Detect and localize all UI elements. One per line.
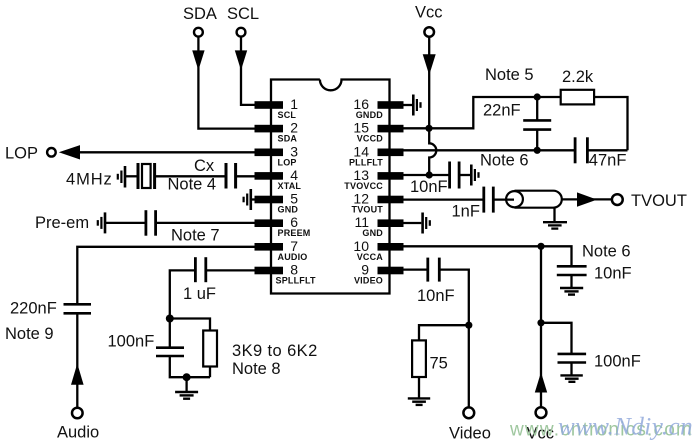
svg-text:1nF: 1nF <box>452 203 480 221</box>
arrow Vcc down <box>423 54 436 75</box>
capacitor 10nF pin13 <box>450 162 460 189</box>
pin 3 stub <box>255 149 284 157</box>
wire 10nF to video node <box>439 270 469 326</box>
pin 11 stub <box>378 219 404 227</box>
svg-text:LOP: LOP <box>5 144 38 162</box>
terminal LOP <box>47 148 56 157</box>
wire node to resistor <box>170 319 210 331</box>
wire 2.2k to right corner <box>594 97 627 150</box>
capacitor 1nF <box>484 187 494 213</box>
arrow Vcc2 up <box>535 372 547 392</box>
wire pin 15 to top rail <box>403 97 561 128</box>
arrow LOP left <box>59 145 80 159</box>
arrow TVOUT right <box>577 192 597 206</box>
pin 5 stub <box>255 196 284 204</box>
wire SDA to pin 2 <box>198 37 256 129</box>
svg-text:100nF: 100nF <box>594 353 641 371</box>
svg-text:Video: Video <box>449 425 491 443</box>
wire 1nF to cable <box>493 198 514 200</box>
wire pin 16 to ground <box>403 104 412 106</box>
pin 6 stub <box>255 219 284 227</box>
svg-text:PREEM: PREEM <box>278 228 311 238</box>
svg-text:Note 6: Note 6 <box>480 152 529 170</box>
terminal SCL <box>237 28 246 37</box>
pin 15 stub <box>378 125 404 133</box>
wire pin 14 rail <box>403 149 575 151</box>
wire node to 75 resistor <box>419 325 469 340</box>
wire 1uF to node <box>170 270 196 318</box>
capacitor 1uF <box>195 257 205 282</box>
wire pin 7 to 220nF <box>77 247 256 304</box>
svg-text:75: 75 <box>430 355 448 373</box>
svg-text:VCCD: VCCD <box>357 134 384 144</box>
wire pin 9 to 10nF <box>403 268 428 270</box>
svg-text:Note 9: Note 9 <box>5 325 54 343</box>
svg-text:Audio: Audio <box>57 424 99 442</box>
svg-text:www.Ndiy.cn: www.Ndiy.cn <box>558 414 693 441</box>
svg-text:GNDD: GNDD <box>356 110 384 120</box>
svg-text:VIDEO: VIDEO <box>354 276 383 286</box>
svg-text:Note 7: Note 7 <box>171 227 220 245</box>
wire resistor to rail <box>209 367 211 378</box>
pin 14 stub <box>378 149 404 157</box>
svg-text:AUDIO: AUDIO <box>278 252 308 262</box>
capacitor 100nF left <box>156 348 184 356</box>
ground crystal <box>118 166 137 188</box>
pin 2 stub <box>255 125 284 133</box>
wire Note7 cap to pin 6 <box>156 222 256 224</box>
wire cable to terminal <box>562 198 612 200</box>
wire pin 8 to 1uF <box>206 269 256 271</box>
wire 47nF to corner <box>587 149 627 151</box>
junction dot pin13 Vcc <box>426 171 433 178</box>
svg-text:SDA: SDA <box>278 134 298 144</box>
terminal Vcc bottom <box>536 407 547 418</box>
crystal X1 4MHz <box>138 163 155 189</box>
terminal TVOUT <box>612 194 623 205</box>
resistor 75 <box>412 340 426 377</box>
terminal Vcc top <box>424 27 434 37</box>
svg-text:4MHz: 4MHz <box>66 171 113 189</box>
arrow SDA down <box>192 50 204 70</box>
pin 9 stub <box>378 267 404 275</box>
ground pin 11 <box>423 213 430 234</box>
svg-text:1 uF: 1 uF <box>183 285 216 303</box>
junction dot top rail <box>534 93 541 100</box>
resistor 3K9 to 6K2 <box>203 331 217 367</box>
svg-text:Note 8: Note 8 <box>232 360 281 378</box>
svg-text:GND: GND <box>362 228 383 238</box>
pin 4 stub <box>255 172 284 180</box>
wire Cx to pin 4 <box>236 175 256 177</box>
svg-text:VCCA: VCCA <box>357 252 384 262</box>
svg-text:SDA: SDA <box>183 5 217 23</box>
ground pin 16 <box>413 95 420 116</box>
capacitor 10nF pin9 <box>428 258 440 282</box>
pin 12 stub <box>378 196 404 204</box>
svg-text:220nF: 220nF <box>10 300 57 318</box>
cable left end ellipse <box>506 191 523 207</box>
svg-text:PLLFLT: PLLFLT <box>349 157 383 167</box>
pin 1 stub <box>255 101 284 109</box>
wire SCL to pin 1 <box>241 37 256 105</box>
wire pin 11 to ground <box>403 222 421 224</box>
svg-text:100nF: 100nF <box>108 333 155 351</box>
resistor 2.2k <box>561 90 594 105</box>
pin 10 stub <box>378 243 404 251</box>
ground 75 <box>408 398 430 405</box>
capacitor 220nF <box>64 304 92 313</box>
svg-text:Vcc: Vcc <box>415 4 443 22</box>
svg-text:TVOUT: TVOUT <box>631 192 687 210</box>
wire pin 10 to Note6 cap <box>403 246 572 266</box>
svg-text:SCL: SCL <box>278 110 297 120</box>
wire Vcc vertical with hop <box>429 37 436 175</box>
svg-text:10nF: 10nF <box>417 287 455 305</box>
junction node SPLL <box>166 315 174 323</box>
svg-text:SCL: SCL <box>227 5 259 23</box>
capacitor 47nF <box>575 137 587 163</box>
svg-text:10nF: 10nF <box>410 178 448 196</box>
ground 10nF right <box>560 275 583 295</box>
capacitor 22nF <box>523 97 551 150</box>
pin 16 stub <box>378 101 404 109</box>
junction dot rail <box>183 373 191 381</box>
junction dot video <box>465 322 472 329</box>
wire node to Video terminal <box>468 325 470 407</box>
svg-text:XTAL: XTAL <box>278 181 302 191</box>
arrow Audio up <box>71 364 84 385</box>
capacitor 100nF right <box>558 354 587 363</box>
pin 8 stub <box>255 267 284 275</box>
wire LOP to pin 3 <box>79 151 256 153</box>
svg-text:Pre-em: Pre-em <box>35 214 89 232</box>
capacitor pre-emphasis Note 7 <box>146 210 156 236</box>
ground 100nF right <box>560 363 582 382</box>
wire 10nF to ground <box>459 174 470 176</box>
junction dot pin10 Vcc2 <box>537 243 544 250</box>
capacitor 10nF right <box>557 266 587 275</box>
junction dot pin15 Vcc <box>425 125 432 132</box>
wire pin 13 <box>403 174 450 176</box>
wire pin 12 to 1nF <box>403 198 484 200</box>
svg-text:GND: GND <box>278 205 299 215</box>
svg-text:10nF: 10nF <box>594 265 632 283</box>
svg-text:Note 4: Note 4 <box>168 176 217 194</box>
svg-text:47nF: 47nF <box>589 152 627 170</box>
wire 220nF to Audio terminal <box>76 313 78 407</box>
IC U1 body <box>271 80 390 294</box>
svg-text:TVOUT: TVOUT <box>352 205 384 215</box>
svg-text:Note 6: Note 6 <box>582 243 631 261</box>
cable TVOUT body <box>515 191 562 208</box>
svg-text:TVOVCC: TVOVCC <box>344 181 383 191</box>
terminal SDA <box>194 28 203 37</box>
ground pin 5 <box>244 189 255 210</box>
svg-text:Note 5: Note 5 <box>485 66 534 84</box>
svg-text:22nF: 22nF <box>483 102 521 120</box>
junction dot bottom rail <box>534 147 541 154</box>
terminal Audio <box>72 408 83 419</box>
ground pre-em <box>98 212 146 233</box>
wire node to 100nF <box>169 319 171 348</box>
pin 13 stub <box>378 172 404 180</box>
svg-text:SPLLFLT: SPLLFLT <box>276 276 317 286</box>
svg-text:2.2k: 2.2k <box>562 68 594 86</box>
ground SPLL network <box>175 377 198 399</box>
ground pin 13 <box>471 165 478 186</box>
wire branch 100nF right <box>541 323 572 354</box>
svg-text:LOP: LOP <box>278 157 297 167</box>
wire Vcc2 vertical <box>540 246 542 407</box>
wire crystal to Cx <box>155 175 226 177</box>
svg-text:3K9 to 6K2: 3K9 to 6K2 <box>232 342 318 360</box>
pin 7 stub <box>255 243 284 251</box>
capacitor Cx <box>226 163 236 189</box>
arrow SCL down <box>235 50 247 70</box>
junction dot Vcc2 100nF <box>537 319 544 326</box>
wire 100nF to rail <box>170 356 210 377</box>
svg-text:Cx: Cx <box>194 157 215 175</box>
terminal Video <box>463 407 474 418</box>
wire 75 to ground <box>418 377 420 398</box>
ground cable <box>543 208 567 229</box>
